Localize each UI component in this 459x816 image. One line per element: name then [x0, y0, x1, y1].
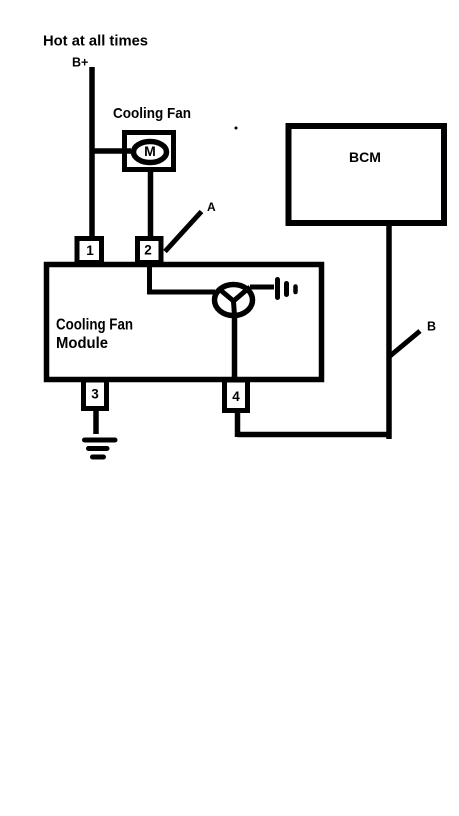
- wire: pin 3 to chassis ground: [93, 408, 99, 434]
- svg-text:3: 3: [91, 387, 99, 402]
- internal ground (bars): [278, 280, 296, 298]
- svg-text:M: M: [144, 143, 156, 159]
- pin 3: [84, 380, 107, 409]
- wire: pin 4 down to bottom run: [235, 410, 241, 437]
- svg-text:1: 1: [86, 243, 94, 258]
- wire: driver down to pin 4: [232, 316, 238, 380]
- svg-text:2: 2: [144, 243, 152, 258]
- ground symbol: [85, 440, 116, 457]
- cooling fan module box: [47, 265, 322, 380]
- pin 1: [77, 239, 102, 263]
- wire: driver to internal ground: [250, 285, 274, 290]
- label: Cooling Fan Module: [56, 317, 133, 353]
- svg-text:B+: B+: [72, 56, 88, 70]
- wire: B+ feed down to pin 1: [89, 67, 95, 238]
- svg-text:BCM: BCM: [349, 149, 381, 165]
- svg-text:B: B: [427, 320, 436, 334]
- stray dot: [235, 127, 238, 130]
- pin 4: [225, 380, 248, 411]
- BCM module: [289, 126, 445, 223]
- wire: bottom horizontal run: [238, 432, 392, 438]
- callout line A: [165, 212, 202, 252]
- svg-text:Cooling Fan: Cooling Fan: [113, 105, 191, 122]
- svg-text:Module: Module: [56, 335, 108, 352]
- wire: pin 2 to fan driver: [150, 262, 216, 292]
- wire: BCM down to bottom corner: [386, 223, 392, 439]
- wire: branch from B+ to motor: [90, 148, 132, 154]
- svg-text:Cooling Fan: Cooling Fan: [56, 317, 133, 334]
- svg-text:4: 4: [232, 389, 240, 404]
- wire: motor to pin 2: [148, 169, 154, 238]
- svg-text:A: A: [207, 200, 216, 214]
- pin 2: [138, 239, 162, 263]
- callout line B: [390, 331, 420, 356]
- fan driver symbol (circle with Y): [215, 285, 253, 317]
- motor M1 (cooling fan): [125, 133, 174, 170]
- svg-text:Hot at all times: Hot at all times: [43, 33, 148, 50]
